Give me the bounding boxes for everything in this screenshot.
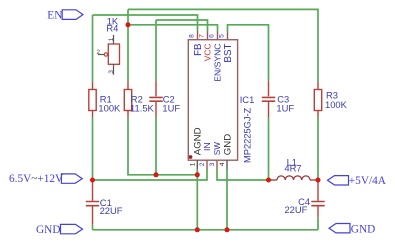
wire: pin 4 GND down to GND rail [226,169,228,230]
op-amp/IC U1 MP2225GJ-Z body [188,40,237,161]
connector flag EN [62,10,83,20]
svg-text:GND: GND [223,134,234,155]
svg-text:22UF: 22UF [100,205,123,216]
wire: C2 top vertical [155,20,157,81]
wire: AGND net R2 bottom to pin 1 [128,118,197,175]
wire: VIN rail from dot to pin 2 IN [93,169,208,180]
resistor R3 [314,82,321,118]
wire: AGND line down to GND rail [196,175,198,230]
svg-text:3: 3 [108,70,115,74]
svg-text:5: 5 [219,34,226,38]
IC bottom pin stubs 2 and 3 [207,160,217,169]
svg-text:VCC: VCC [203,44,213,62]
capacitor C3 [262,81,275,118]
resistor R1 [89,82,96,118]
junction dot pin1/AGND [195,172,200,177]
svg-text:2: 2 [97,49,101,56]
wire: GND bottom rail [93,229,319,231]
svg-text:R4: R4 [106,23,118,34]
wire: D1 down to R2 top [127,25,129,81]
wire: BST net pin 5 to C3 top [228,25,269,81]
connector flag GND left [61,224,83,233]
svg-text:1UF: 1UF [162,103,180,114]
svg-text:100K: 100K [98,103,121,114]
wire: SW dot to L1 left lead [269,179,273,181]
svg-text:2: 2 [199,162,206,166]
wire: C4 bottom to GND rail [317,217,319,230]
svg-text:IN: IN [202,142,212,151]
potentiometer R4 [98,35,120,75]
svg-text:11.5K: 11.5K [130,103,155,114]
wire: EN rail vertical down to R1 top [92,15,94,82]
svg-text:6: 6 [209,34,216,38]
wire: FB net horizontal from EN rail corner to pin 8 [93,15,198,32]
svg-text:1: 1 [189,162,196,166]
svg-text:1: 1 [108,37,115,41]
connector flag +5V/4A [328,176,349,185]
svg-text:1UF: 1UF [276,103,294,114]
svg-text:4R7: 4R7 [284,163,301,174]
wire: C3 bottom vertical to SW line [268,118,270,181]
wire: C2 bottom vertical to AGND line [155,118,157,175]
svg-text:22UF: 22UF [284,204,307,215]
IC bottom pin stubs 1 and 4 [197,160,227,169]
svg-text:IC1: IC1 [240,94,255,105]
svg-text:3: 3 [209,162,216,166]
wire: vertical from top rail to junction D1 [127,9,129,24]
junction dot VOUT [316,178,321,183]
svg-text:+5V/4A: +5V/4A [349,175,387,187]
IC top pin stubs [198,32,228,40]
svg-text:4: 4 [219,162,226,166]
connector flag 6.5V~+12V [61,174,82,183]
resistor R2 [124,81,131,118]
svg-text:EN/SYNC: EN/SYNC [212,44,222,82]
svg-text:7: 7 [199,34,206,38]
svg-text:BST: BST [223,43,234,62]
wire: EN/SYNC horizontal from D1 to pin 6 [128,25,218,32]
svg-text:GND: GND [351,223,375,235]
junction dot C2/AGND [154,172,159,177]
svg-text:EN: EN [47,10,62,22]
wire: pin 1 stub to AGND line [196,169,198,175]
svg-text:GND: GND [36,224,60,236]
capacitor C2 [149,81,162,118]
wire: C1 bottom to GND rail [92,225,94,230]
junction dot SW/C3/L1 [266,178,271,183]
svg-text:6.5V~+12V: 6.5V~+12V [9,173,64,185]
wire: VCC net from C2 top to pin 7 [156,20,208,32]
svg-text:8: 8 [189,34,196,38]
wire: R1 bottom to VIN rail [92,118,94,181]
svg-text:100K: 100K [325,99,348,110]
wire: SW net pin 3 down and right to L1 [217,169,269,180]
junction dot AGND/GND rail [195,227,200,232]
capacitor C4 [311,180,324,217]
inductor L1 [272,176,319,180]
connector flag GND right [329,224,350,233]
junction dot D1 [126,22,131,27]
junction dot VIN [90,178,95,183]
svg-text:SW: SW [213,142,222,155]
wire: R3 bottom to VOUT node [317,118,319,181]
IC pin-1 marker dot [189,155,193,159]
wire: top rail (EN/SYNC net) to R3 [128,9,318,82]
svg-text:MP2225GJ-Z: MP2225GJ-Z [243,107,253,163]
capacitor C1 [86,180,99,225]
junction dot pin4/GND rail [225,227,230,232]
